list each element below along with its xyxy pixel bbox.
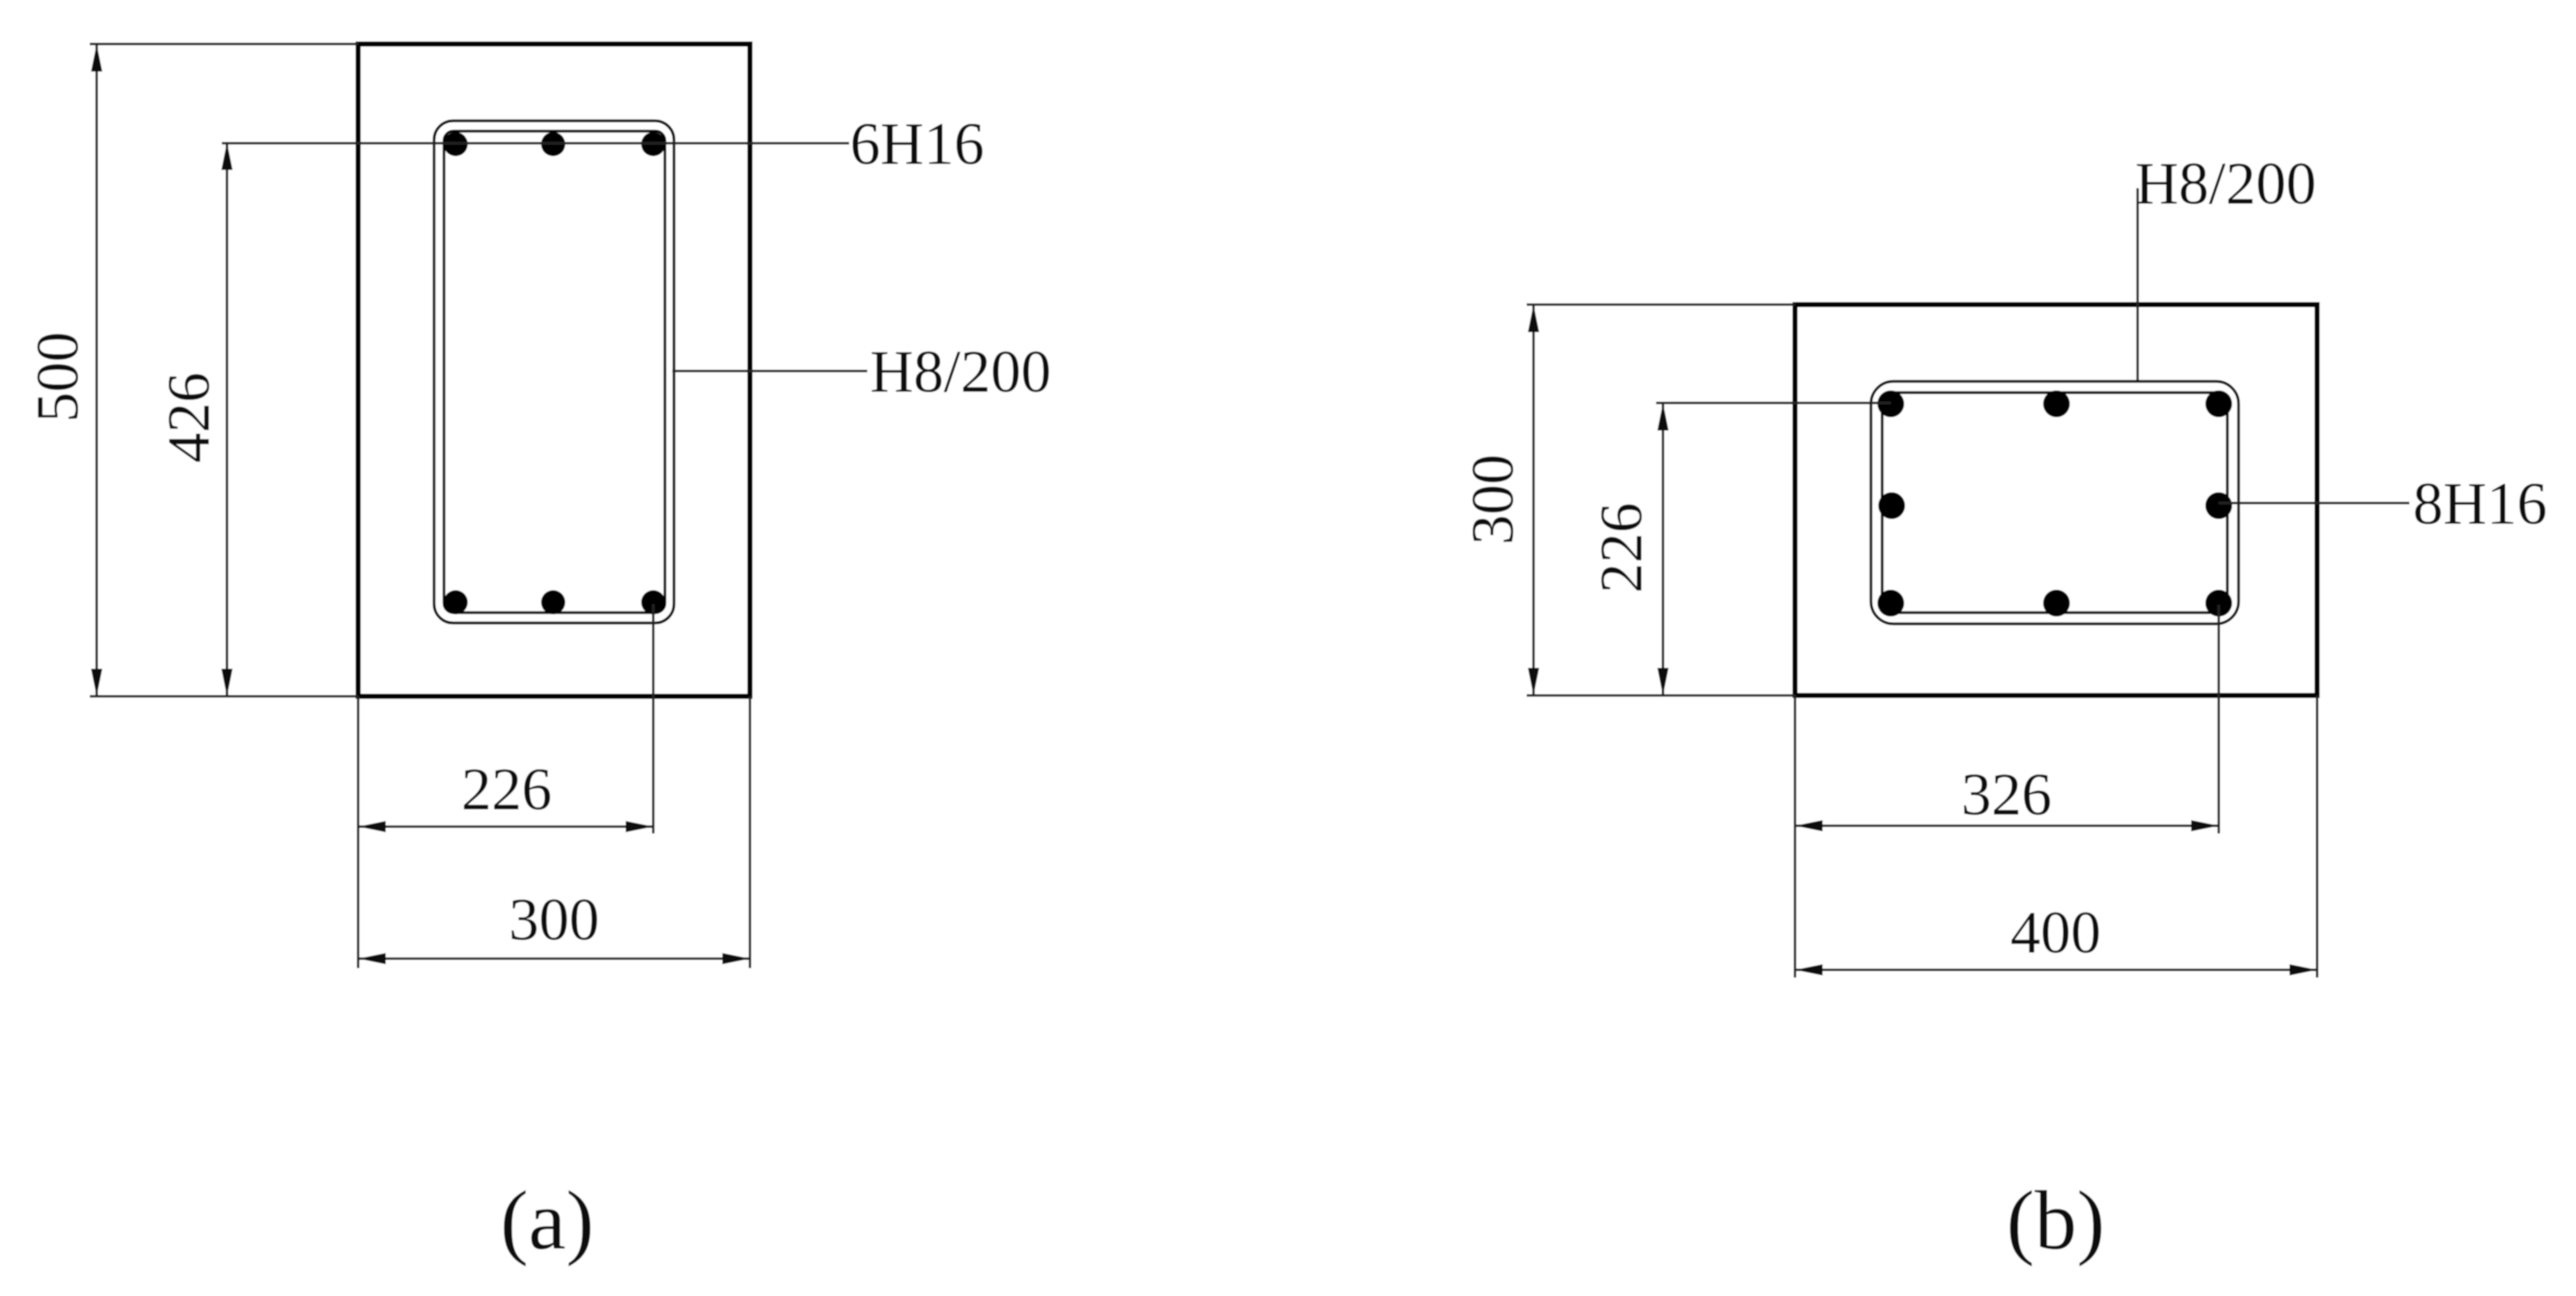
svg-text:400: 400	[2011, 900, 2101, 966]
rebar bottom-left (b)	[1878, 590, 1905, 617]
rebar top-middle (a)	[541, 132, 565, 156]
extension line right of 226 (a)	[652, 604, 655, 834]
extension line right of 326 (b)	[2218, 605, 2220, 834]
dimension 300 line (b)	[1527, 305, 1795, 695]
svg-text:326: 326	[1962, 762, 2052, 828]
rebar bottom-left (a)	[444, 590, 468, 614]
rebar top-left (a)	[444, 132, 468, 156]
rebar bottom-right (a)	[641, 590, 665, 614]
extension line left below section (b)	[1794, 695, 1797, 978]
rebar mid-right (b)	[2206, 493, 2233, 519]
svg-text:300: 300	[1460, 455, 1527, 545]
rebar bottom-middle (b)	[2044, 590, 2070, 617]
8H16 leader line (b)	[2219, 502, 2409, 505]
concrete section outline (a) 300x500	[358, 44, 750, 696]
rebar mid-left (b)	[1879, 493, 1905, 519]
rebar top-right (a)	[641, 132, 665, 156]
rebar top-middle (b)	[2044, 391, 2070, 418]
rebar top-right (b)	[2206, 391, 2233, 418]
svg-text:6H16: 6H16	[850, 111, 985, 178]
dimension 226 line (a)	[358, 821, 653, 833]
svg-text:226: 226	[462, 757, 552, 823]
dimension 400 line (b)	[1795, 965, 2317, 976]
rebar bottom-right (b)	[2206, 590, 2233, 617]
stirrup H8/200 outer line (b)	[1871, 381, 2239, 624]
svg-text:500: 500	[25, 332, 91, 423]
svg-text:426: 426	[156, 373, 223, 463]
6H16 leader line (a)	[222, 142, 849, 145]
rebar top-left (b)	[1878, 391, 1905, 418]
svg-text:(b): (b)	[2006, 1174, 2105, 1268]
svg-text:H8/200: H8/200	[2135, 151, 2316, 217]
stirrup H8/200 inner line (b)	[1882, 393, 2227, 613]
dimension 226 line (b)	[1656, 403, 1891, 695]
rebar bottom-middle (a)	[541, 590, 565, 614]
svg-text:226: 226	[1589, 503, 1655, 594]
H8/200 leader line (a)	[672, 370, 867, 373]
dimension 300 line (a)	[358, 953, 750, 965]
dimension 500 line (a)	[90, 44, 358, 696]
stirrup H8/200 inner line (a)	[444, 131, 665, 613]
dimension 326 line (b)	[1795, 821, 2219, 832]
svg-text:(a): (a)	[501, 1174, 595, 1268]
extension line left below section (a)	[357, 696, 360, 968]
svg-text:300: 300	[509, 887, 600, 953]
svg-text:8H16: 8H16	[2413, 471, 2548, 538]
stirrup H8/200 outer line (a)	[434, 121, 674, 623]
concrete section outline (b) 400x300	[1795, 305, 2317, 695]
dimension 426 line (a)	[222, 142, 233, 696]
extension line right below section (a)	[749, 696, 752, 968]
H8/200 leader line (b)	[2137, 188, 2139, 381]
extension line right below section (b)	[2316, 695, 2319, 978]
svg-text:H8/200: H8/200	[870, 339, 1051, 406]
